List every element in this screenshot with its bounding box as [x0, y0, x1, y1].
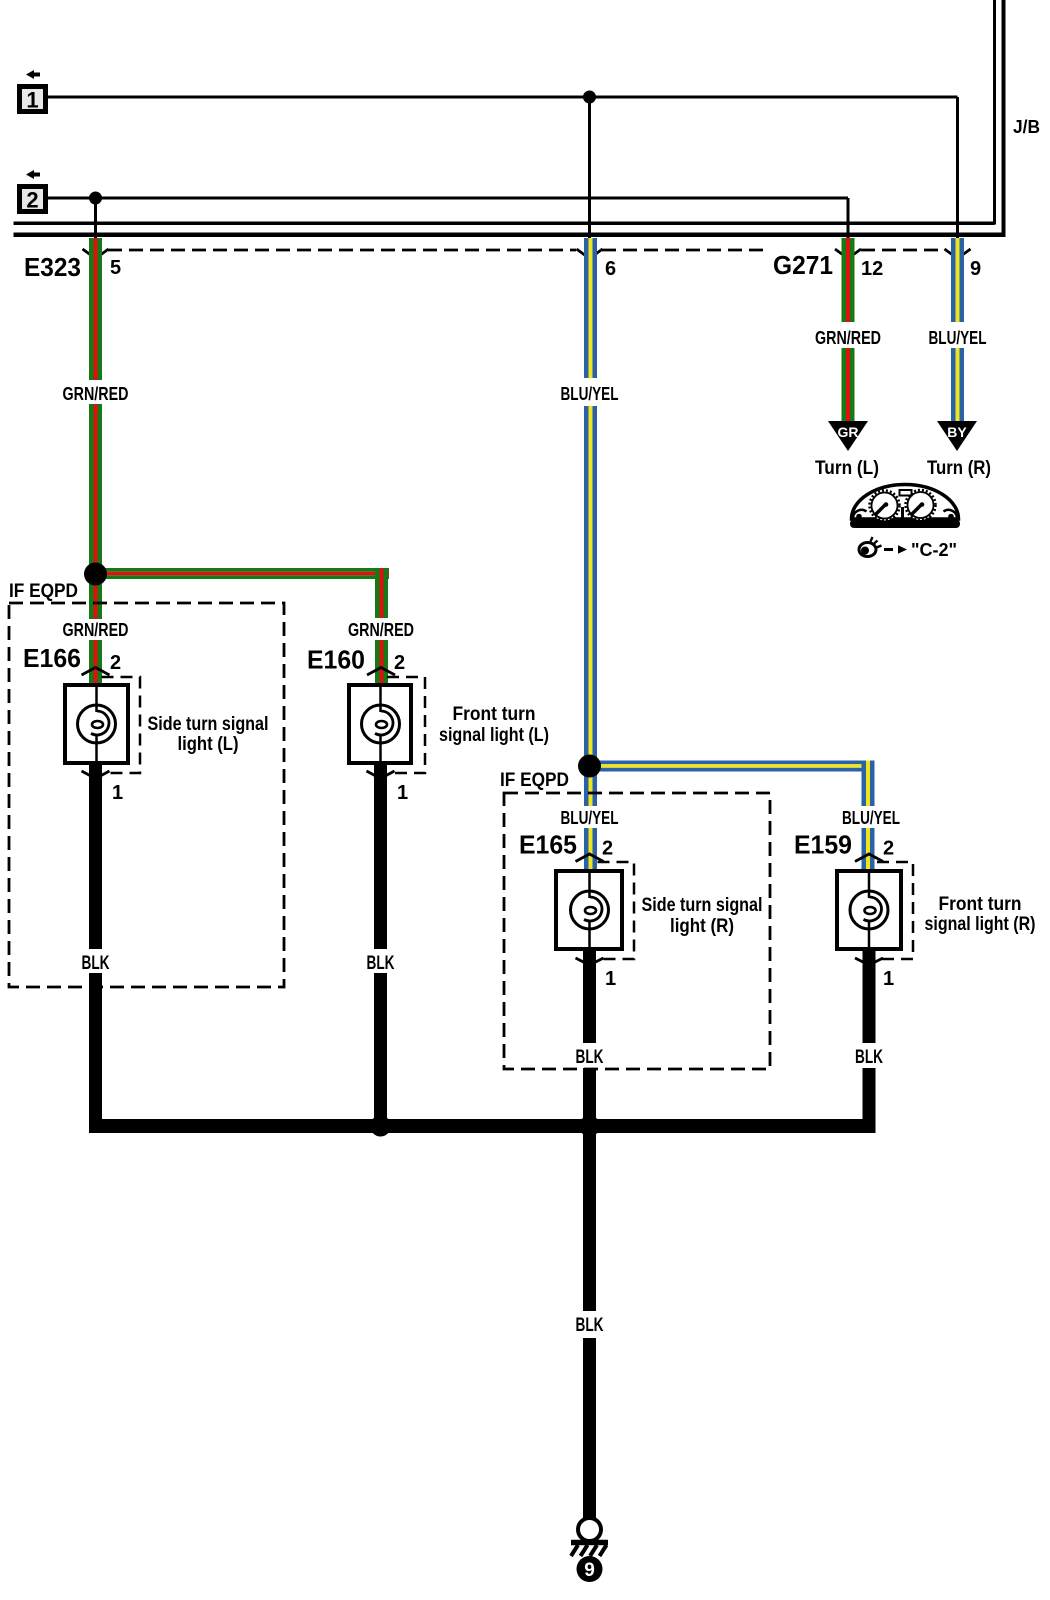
branch wire BLU/YEL to E159 (vertical upper): [862, 761, 875, 807]
lamp E165 bulb: [571, 891, 609, 929]
lamp E166 lead line: [95, 685, 98, 712]
destination arrow BY (Turn R): [937, 421, 977, 451]
wire BLK from E165 pin 1 (upper): [583, 949, 596, 1043]
pin 6 arrow: [577, 249, 603, 259]
svg-text:BY: BY: [947, 424, 967, 440]
svg-text:E159: E159: [794, 830, 852, 860]
svg-text:BLK: BLK: [82, 953, 110, 974]
wire BLK from E166 pin 1 (lower): [89, 973, 102, 1133]
lamp E166 box: [65, 685, 128, 763]
svg-text:Side turn signal: Side turn signal: [642, 895, 763, 916]
destination arrow GR (Turn L): [828, 421, 868, 451]
svg-text:2: 2: [394, 652, 405, 674]
lamp E159 pin 1 arrow: [855, 958, 883, 965]
lamp E166 pin 1 arrow: [82, 771, 110, 779]
svg-text:E166: E166: [23, 643, 81, 673]
lamp E165 box: [556, 871, 622, 949]
wire BLK from E160 pin 1 (upper): [374, 763, 387, 949]
wire BLK from E159 pin 1 (upper): [863, 949, 876, 1043]
svg-text:BLK: BLK: [367, 953, 395, 974]
lamp E159 box: [837, 871, 901, 949]
lamp E160 dashed outline: [387, 677, 425, 773]
wire BLK from E165 pin 1 (lower): [583, 1068, 596, 1119]
ground number badge 9: [577, 1556, 603, 1582]
svg-text:6: 6: [605, 258, 616, 280]
svg-text:9: 9: [584, 1560, 595, 1581]
wire from connector 2 to J/B: [48, 197, 848, 200]
ground bus wire BLK (horizontal): [89, 1119, 876, 1133]
connector box 1: [20, 87, 46, 113]
svg-text:1: 1: [397, 782, 408, 804]
lamp E160 bulb: [362, 705, 400, 743]
svg-text:GRN/RED: GRN/RED: [63, 384, 129, 404]
junction node GRN/RED: [84, 563, 107, 586]
junction node on wire 2: [89, 192, 102, 205]
arrow above connector 2: [26, 170, 40, 179]
wire GRN/RED pin 5 (segment to junction): [89, 404, 102, 619]
svg-text:IF EQPD: IF EQPD: [500, 770, 569, 791]
label Side turn signal light (L): [148, 714, 269, 755]
lamp E160 pin 1 arrow: [367, 771, 395, 779]
svg-text:"C-2": "C-2": [911, 540, 957, 560]
wire BLU/YEL from pin 6 (upper segment): [584, 238, 597, 378]
lamp E166 dashed outline: [102, 677, 141, 773]
IF EQPD dashed box (left): [9, 603, 284, 987]
wire GRN/RED to Turn (L) (upper segment): [842, 238, 855, 322]
svg-text:BLU/YEL: BLU/YEL: [929, 328, 987, 348]
svg-text:signal light (R): signal light (R): [925, 914, 1036, 935]
branch wire BLU/YEL to E159 (horizontal): [589, 761, 875, 772]
pin 12 arrow: [835, 249, 861, 259]
svg-text:light (R): light (R): [670, 916, 734, 937]
svg-text:BLK: BLK: [576, 1315, 604, 1336]
svg-text:2: 2: [26, 188, 38, 213]
svg-text:Turn (L): Turn (L): [815, 458, 879, 479]
svg-text:12: 12: [861, 258, 883, 280]
junction node BLU/YEL: [578, 755, 601, 778]
wire BLK bus to ground (upper): [583, 1133, 596, 1311]
svg-text:Front turn: Front turn: [453, 704, 536, 725]
lamp E160 box: [349, 685, 411, 763]
branch wire BLU/YEL to E159 (vertical lower): [862, 828, 875, 871]
svg-text:J/B: J/B: [1013, 117, 1040, 137]
svg-text:BLU/YEL: BLU/YEL: [561, 384, 619, 404]
svg-text:Front turn: Front turn: [939, 894, 1022, 915]
wire BLU/YEL pin 6 (segment to E165): [584, 828, 597, 871]
wire BLU/YEL to Turn (R) (lower segment): [951, 348, 964, 421]
wire BLK from E159 pin 1 (lower): [863, 1068, 876, 1133]
svg-text:signal light (L): signal light (L): [439, 725, 549, 746]
label Front turn signal light (R): [925, 894, 1036, 935]
svg-text:E165: E165: [519, 830, 577, 860]
arrow above connector 1: [26, 70, 40, 79]
wire drop to pin 5: [94, 198, 97, 238]
svg-text:BLK: BLK: [855, 1047, 883, 1068]
label Side turn signal light (R): [642, 895, 763, 937]
see C-2 reference icon: [859, 537, 907, 557]
svg-text:1: 1: [112, 782, 123, 804]
svg-text:Turn (R): Turn (R): [927, 458, 991, 479]
svg-text:1: 1: [26, 88, 38, 113]
label Front turn signal light (L): [439, 704, 549, 746]
svg-text:9: 9: [970, 258, 981, 280]
lamp E165 pin 1 arrow: [576, 958, 604, 965]
wire GRN/RED pin 5 (segment to E166): [89, 640, 102, 685]
connector box 2: [20, 187, 46, 213]
svg-text:2: 2: [602, 838, 613, 860]
svg-text:light (L): light (L): [178, 734, 239, 755]
lamp E159 lead line: [868, 871, 871, 898]
svg-text:2: 2: [110, 652, 121, 674]
svg-text:G271: G271: [773, 250, 833, 280]
dashed connector boundary line: [108, 249, 944, 252]
svg-text:GR: GR: [838, 424, 859, 440]
branch wire GRN/RED to E160 (vertical lower): [375, 640, 388, 685]
wire from connector 1 to J/B: [48, 96, 958, 99]
svg-text:GRN/RED: GRN/RED: [63, 620, 129, 640]
svg-text:BLK: BLK: [576, 1047, 604, 1068]
svg-text:E323: E323: [24, 252, 81, 282]
svg-text:Side turn signal: Side turn signal: [148, 714, 269, 735]
wire BLU/YEL pin 6 (segment to junction): [584, 406, 597, 806]
instrument cluster icon: [850, 485, 960, 528]
svg-text:GRN/RED: GRN/RED: [815, 328, 881, 348]
junction node on wire 1: [583, 91, 596, 104]
svg-text:5: 5: [110, 257, 121, 279]
wire BLU/YEL to Turn (R) (upper segment): [951, 238, 964, 322]
lamp E160 lead line: [379, 685, 382, 712]
branch wire GRN/RED to E160 (vertical upper): [375, 568, 388, 618]
svg-text:2: 2: [883, 838, 894, 860]
lamp E166 pin 2 arrow: [82, 668, 110, 676]
lamp E165 lead line: [588, 871, 591, 898]
wire BLK from E166 pin 1 (upper): [89, 763, 102, 949]
pin 5 arrow: [83, 249, 109, 259]
svg-text:1: 1: [605, 968, 616, 990]
wire drop to pin 9: [956, 97, 959, 238]
wire GRN/RED from E323 pin 5 (upper segment): [89, 238, 102, 380]
branch wire GRN/RED to E160 (horizontal): [95, 568, 389, 579]
junction node bus at E160: [370, 1116, 391, 1137]
lamp E159 pin 2 arrow: [855, 854, 883, 862]
svg-text:E160: E160: [307, 645, 365, 675]
wire GRN/RED to Turn (L) (lower segment): [842, 348, 855, 421]
svg-text:BLU/YEL: BLU/YEL: [842, 808, 900, 828]
ground symbol: [571, 1518, 608, 1556]
junction node bus at E165: [579, 1116, 600, 1137]
wire BLK bus to ground (lower): [583, 1338, 596, 1519]
lamp E165 pin 2 arrow: [576, 854, 604, 862]
svg-text:IF EQPD: IF EQPD: [9, 581, 78, 602]
pin 9 arrow: [945, 249, 971, 259]
wire BLK from E160 pin 1 (lower): [374, 973, 387, 1133]
wire drop to pin 6: [588, 97, 591, 238]
lamp E159 bulb: [850, 891, 888, 929]
IF EQPD dashed box (right): [504, 793, 770, 1069]
lamp E166 bulb: [78, 705, 116, 743]
lamp E165 dashed outline: [598, 862, 635, 959]
lamp E160 pin 2 arrow: [367, 668, 395, 676]
svg-text:BLU/YEL: BLU/YEL: [561, 808, 619, 828]
wire drop to pin 12: [847, 198, 850, 238]
svg-text:GRN/RED: GRN/RED: [348, 620, 414, 640]
J/B boundary double line: [14, 0, 1006, 237]
svg-text:1: 1: [883, 968, 894, 990]
lamp E159 dashed outline: [877, 862, 913, 959]
